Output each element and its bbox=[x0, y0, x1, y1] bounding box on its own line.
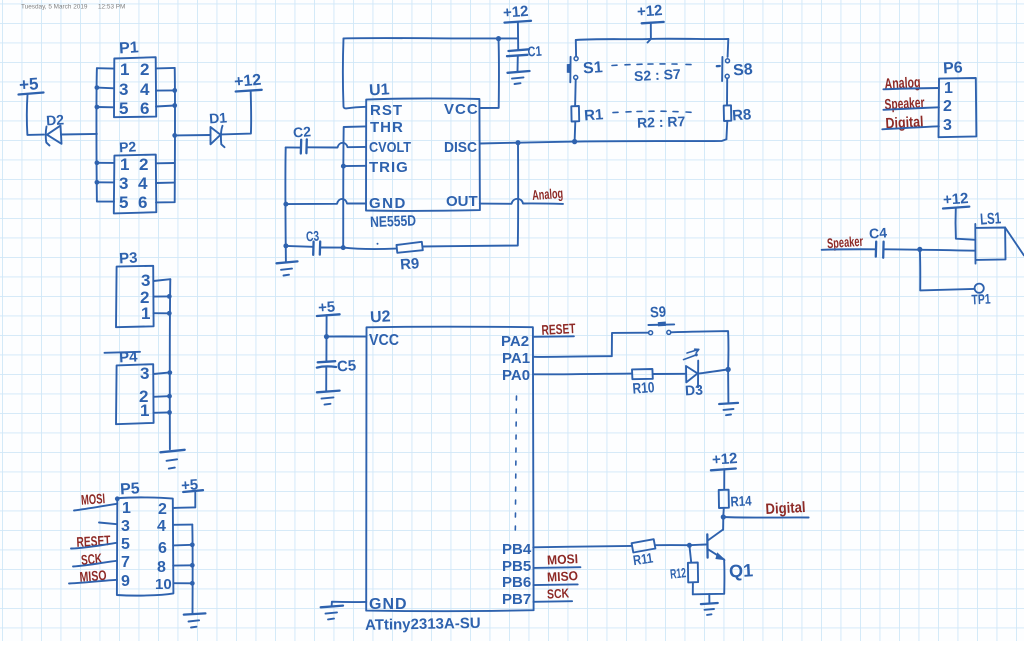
node: C3-TRIG junction bbox=[341, 245, 346, 250]
power +12 (Q1) bbox=[711, 450, 738, 490]
svg-text:+12: +12 bbox=[502, 3, 529, 22]
wire R9 to DISC drop bbox=[422, 143, 518, 247]
svg-text:MISO: MISO bbox=[547, 568, 579, 585]
svg-text:1: 1 bbox=[120, 60, 129, 79]
switch-bank bottom wire (DISC net) bbox=[518, 139, 726, 143]
ground (C5) bbox=[317, 391, 340, 405]
stray pen dot bbox=[377, 243, 379, 245]
wire S1 to R1 bbox=[574, 80, 577, 106]
svg-text:U1: U1 bbox=[369, 81, 390, 99]
node: bus-D1 bbox=[172, 133, 177, 138]
svg-text:4: 4 bbox=[157, 518, 166, 535]
svg-text:S2 : S7: S2 : S7 bbox=[634, 66, 682, 84]
svg-text:2: 2 bbox=[139, 155, 148, 174]
wire C2 right to CVOLT with hop bbox=[307, 143, 366, 148]
node: bus-P2.1 bbox=[95, 160, 100, 165]
svg-text:Digital: Digital bbox=[765, 499, 806, 518]
svg-text:Analog: Analog bbox=[884, 74, 921, 93]
svg-text:R2 : R7: R2 : R7 bbox=[637, 113, 686, 131]
resistor R8 bbox=[724, 105, 752, 124]
wire OUT with hop, to Analog bbox=[480, 199, 563, 204]
ground (U1 left) bbox=[277, 261, 298, 275]
switch S1 bbox=[567, 57, 603, 83]
power +5 rail (top-left) bbox=[18, 74, 43, 94]
svg-text:S1: S1 bbox=[583, 59, 604, 77]
svg-text:1: 1 bbox=[141, 304, 150, 323]
wire junction to VCC bbox=[327, 335, 367, 337]
node: bus-P1.5 bbox=[95, 105, 100, 110]
node: top wire / VCC drop bbox=[496, 36, 501, 41]
P1 right pin stubs bbox=[156, 68, 175, 107]
svg-text:+12: +12 bbox=[636, 2, 663, 21]
svg-text:2: 2 bbox=[158, 501, 167, 518]
right bus (even pins) bbox=[156, 68, 175, 203]
wire P5.2 to +5 bbox=[173, 492, 195, 508]
svg-text:VCC: VCC bbox=[369, 332, 399, 349]
capacitor C4 bbox=[868, 224, 887, 257]
svg-text:TRIG: TRIG bbox=[369, 159, 409, 176]
svg-text:C2: C2 bbox=[293, 123, 312, 140]
svg-text:P5: P5 bbox=[120, 480, 141, 498]
label MISO + PB6 stub bbox=[533, 568, 578, 585]
wire Speaker to C4 bbox=[822, 248, 876, 251]
wire to S8 bbox=[727, 39, 730, 57]
svg-text:2: 2 bbox=[943, 98, 952, 115]
ground (Q1) bbox=[701, 603, 718, 615]
connector P4 bbox=[105, 348, 154, 424]
svg-text:C1: C1 bbox=[527, 43, 542, 60]
svg-text:C5: C5 bbox=[336, 357, 356, 375]
power +12 (switch bank) bbox=[636, 2, 663, 43]
label RESET + wire to P5.5 bbox=[71, 532, 117, 550]
resistor R14 bbox=[719, 490, 752, 510]
svg-text:LS1: LS1 bbox=[980, 210, 1002, 228]
ground (U2) bbox=[321, 606, 343, 620]
wire PA1 to S9 bbox=[533, 333, 648, 357]
svg-text:SCK: SCK bbox=[547, 585, 570, 601]
svg-text:R1: R1 bbox=[584, 106, 604, 124]
svg-text:DISC: DISC bbox=[444, 139, 477, 156]
P3/P4 ground bus wire bbox=[169, 279, 172, 449]
node: GND wire junction bbox=[283, 202, 288, 207]
node: bus-P2.3 bbox=[95, 180, 100, 185]
svg-text:1: 1 bbox=[122, 500, 131, 517]
emitter wire to bottom bbox=[693, 559, 725, 594]
svg-text:PA2: PA2 bbox=[501, 333, 529, 350]
svg-text:R11: R11 bbox=[632, 550, 654, 569]
top wire RST-VCC-C1 bbox=[344, 37, 518, 39]
power +12 (left) bbox=[233, 72, 262, 92]
svg-text:VCC: VCC bbox=[444, 101, 479, 118]
power +5 (P5) bbox=[181, 476, 203, 494]
wire R8 to bottom wire bbox=[725, 121, 728, 139]
node: bus-P4.3 bbox=[167, 370, 172, 375]
ground (S9/D3) bbox=[719, 403, 738, 415]
svg-text:5: 5 bbox=[121, 536, 130, 553]
label Digital + wire bbox=[723, 499, 808, 518]
svg-text:P3: P3 bbox=[119, 249, 138, 267]
power +12 (C1) bbox=[502, 3, 531, 23]
wire D3 to junction bbox=[698, 370, 728, 374]
connector P6 bbox=[939, 59, 977, 137]
capacitor C5 bbox=[317, 357, 357, 391]
node: P5.1 corner bbox=[115, 496, 120, 501]
node: DISC junction bbox=[515, 140, 520, 145]
capacitor C3 bbox=[286, 228, 343, 255]
svg-text:+12: +12 bbox=[711, 450, 738, 469]
svg-text:3: 3 bbox=[119, 174, 128, 193]
node: bus-P3.2 bbox=[167, 294, 172, 299]
node: bus-P1.3 bbox=[95, 85, 100, 90]
svg-text:PB4: PB4 bbox=[502, 541, 532, 558]
wire R11 to Q1 base bbox=[655, 544, 706, 547]
ground (P3/P4 bus) bbox=[160, 450, 184, 469]
node: collector/Digital junction bbox=[721, 514, 726, 519]
svg-text:PB5: PB5 bbox=[502, 558, 531, 575]
P5.3 stub bbox=[99, 523, 117, 525]
node: C3 wire junction bbox=[283, 243, 288, 248]
connector P2 bbox=[114, 138, 157, 213]
label MISO + wire to P5.9 bbox=[69, 567, 117, 585]
svg-text:PA0: PA0 bbox=[502, 367, 530, 384]
speaker LS1 bbox=[975, 210, 1024, 263]
diode D1 bbox=[209, 109, 228, 147]
svg-text:S9: S9 bbox=[649, 303, 666, 321]
svg-text:1: 1 bbox=[140, 401, 149, 420]
transistor Q1 bbox=[707, 530, 753, 582]
svg-text:OUT: OUT bbox=[446, 193, 478, 210]
microcontroller U2 box bbox=[366, 308, 533, 613]
P5 right pin stubs bbox=[173, 525, 192, 584]
ground (C1) bbox=[508, 71, 530, 84]
node: bus-P1.4 bbox=[172, 88, 177, 93]
switch S9 bbox=[648, 303, 674, 334]
label Analog (P6) + wire bbox=[883, 74, 939, 93]
wire junction to C5 bbox=[325, 337, 327, 361]
svg-text:9: 9 bbox=[121, 573, 130, 590]
wire R1 to bottom wire bbox=[574, 122, 577, 142]
wire top to RST bbox=[343, 38, 366, 108]
svg-text:TP1: TP1 bbox=[971, 290, 991, 307]
svg-text:D1: D1 bbox=[209, 109, 228, 126]
wire +5 to D2 bbox=[27, 95, 44, 135]
ground (P5 bus) bbox=[184, 613, 206, 627]
wire TRIG bbox=[343, 165, 366, 167]
wire R10 to D3 bbox=[653, 373, 686, 375]
svg-text:RESET: RESET bbox=[541, 320, 576, 338]
svg-text:12:53 PM: 12:53 PM bbox=[98, 4, 125, 11]
svg-text:GND: GND bbox=[369, 195, 407, 212]
switch bank top wire bbox=[576, 39, 729, 40]
power +12 (LS1) bbox=[942, 190, 975, 240]
svg-text:+5: +5 bbox=[18, 74, 39, 94]
svg-text:R12: R12 bbox=[669, 565, 686, 582]
svg-text:MOSI: MOSI bbox=[80, 490, 105, 508]
wire C2 left to left drop bbox=[286, 146, 301, 148]
label Digital (P6) + wire bbox=[882, 113, 939, 132]
P4 pin stubs bbox=[153, 372, 170, 412]
wire C3 junction to R9 bbox=[343, 248, 396, 249]
svg-text:R9: R9 bbox=[400, 255, 420, 273]
svg-text:2: 2 bbox=[140, 60, 149, 79]
svg-text:P1: P1 bbox=[119, 39, 140, 57]
svg-text:ATtiny2313A-SU: ATtiny2313A-SU bbox=[365, 615, 481, 634]
svg-text:4: 4 bbox=[140, 80, 150, 99]
svg-text:4: 4 bbox=[138, 174, 148, 193]
diode D2 bbox=[46, 111, 65, 145]
svg-text:C4: C4 bbox=[868, 224, 887, 241]
op-amp U1 box (NE555) bbox=[366, 81, 480, 212]
power +5 (U2) bbox=[317, 298, 340, 336]
capacitor C2 bbox=[293, 123, 312, 153]
svg-text:THR: THR bbox=[370, 119, 404, 136]
node: D3/ground junction bbox=[725, 367, 730, 372]
label MOSI + wire to P5.1 bbox=[74, 490, 117, 510]
svg-text:NE555D: NE555D bbox=[370, 212, 417, 231]
wire PB4 to R11 bbox=[533, 546, 631, 547]
switch S8 bbox=[717, 57, 754, 81]
wire C4 to LS1 bbox=[884, 249, 975, 250]
node: bus-P5.8 bbox=[190, 563, 195, 568]
svg-text:R10: R10 bbox=[632, 379, 655, 397]
svg-text:D3: D3 bbox=[685, 381, 704, 398]
svg-text:PA1: PA1 bbox=[502, 350, 530, 367]
svg-text:3: 3 bbox=[140, 364, 149, 383]
svg-text:8: 8 bbox=[157, 559, 166, 576]
node: bus-P5.6 bbox=[190, 542, 195, 547]
node: bus-P5.10 bbox=[190, 581, 195, 586]
connector P1 bbox=[114, 39, 156, 118]
wire to S1 bbox=[575, 40, 577, 57]
dashed pin ellipsis inside U2 bbox=[515, 396, 516, 530]
dashed S2:S7 bbox=[612, 64, 691, 84]
svg-text:R14: R14 bbox=[730, 492, 752, 509]
svg-text:6: 6 bbox=[140, 99, 149, 118]
node: TRIG junction bbox=[341, 164, 346, 169]
wire S8 to R8 bbox=[726, 79, 728, 106]
LED D3 bbox=[684, 349, 704, 398]
svg-text:CVOLT: CVOLT bbox=[369, 139, 411, 156]
right ground bus of P5 bbox=[191, 525, 193, 614]
wire DISC bbox=[480, 142, 518, 145]
svg-text:Q1: Q1 bbox=[729, 560, 754, 581]
svg-text:PB7: PB7 bbox=[502, 591, 531, 608]
svg-text:D2: D2 bbox=[46, 111, 65, 128]
svg-text:Tuesday, 5 March 2019: Tuesday, 5 March 2019 bbox=[21, 4, 88, 11]
wire S9 to right drop bbox=[671, 331, 729, 369]
svg-text:3: 3 bbox=[119, 80, 128, 99]
wire R12 to bottom bbox=[692, 582, 694, 594]
label RESET + PA2 stub bbox=[533, 320, 576, 338]
THR-TRIG vertical bbox=[343, 126, 366, 247]
wire R14 to collector node bbox=[722, 508, 725, 517]
test point TP1 bbox=[971, 284, 991, 308]
svg-text:5: 5 bbox=[119, 99, 128, 118]
svg-text:+12: +12 bbox=[233, 72, 262, 91]
svg-text:R8: R8 bbox=[732, 106, 752, 124]
svg-text:RST: RST bbox=[370, 102, 403, 119]
svg-text:1: 1 bbox=[944, 80, 953, 97]
svg-text:1: 1 bbox=[120, 155, 129, 174]
resistor R9 bbox=[397, 242, 423, 274]
wire bottom to ground bbox=[708, 594, 710, 602]
svg-text:3: 3 bbox=[121, 518, 130, 535]
node: base/R12 junction bbox=[687, 543, 692, 548]
U2 GND stub bbox=[332, 602, 367, 606]
label Speaker (P6) + wire bbox=[883, 94, 939, 113]
wire D1 to +12 bbox=[221, 92, 251, 135]
node: R1-bottom junction bbox=[572, 139, 577, 144]
resistor R1 bbox=[571, 106, 604, 125]
label SCK + PB7 stub bbox=[533, 585, 572, 601]
wire R12 drop bbox=[689, 545, 691, 562]
node: C4/TP1 junction bbox=[917, 247, 922, 252]
node: bus-P3.1 bbox=[167, 311, 172, 316]
left bus (odd pins) bbox=[96, 68, 114, 201]
resistor R12 bbox=[669, 563, 698, 583]
node: bus-P4.1 bbox=[167, 410, 172, 415]
node: bus-P1.6 bbox=[172, 103, 177, 108]
connector P5 bbox=[117, 480, 173, 595]
svg-text:GND: GND bbox=[369, 596, 408, 613]
svg-text:7: 7 bbox=[121, 554, 130, 571]
svg-text:Analog: Analog bbox=[532, 185, 564, 203]
resistor R10 bbox=[632, 369, 655, 398]
P3 pin stubs bbox=[153, 279, 170, 313]
wire junction down to TP1 bbox=[920, 249, 974, 290]
wire junction to ground bbox=[727, 370, 729, 403]
svg-text:P6: P6 bbox=[943, 59, 964, 77]
svg-text:U2: U2 bbox=[370, 308, 391, 326]
P2 right pin stubs bbox=[156, 163, 175, 183]
svg-text:3: 3 bbox=[943, 117, 952, 134]
node: +5/C5/VCC junction bbox=[324, 334, 329, 339]
wire GND with hop bbox=[286, 199, 366, 204]
P1 left pin stubs bbox=[97, 68, 114, 107]
wire VCC drop bbox=[480, 39, 499, 108]
svg-text:S8: S8 bbox=[733, 61, 754, 79]
connector P3 bbox=[116, 249, 154, 327]
svg-text:6: 6 bbox=[138, 193, 147, 212]
wire PA0 to R10 bbox=[533, 373, 631, 376]
wire +12 to C1 bbox=[517, 22, 519, 50]
node: bus-P4.2 bbox=[167, 394, 172, 399]
label SCK + wire to P5.7 bbox=[73, 550, 117, 568]
dashed R2:R7 bbox=[613, 111, 691, 131]
svg-text:P2: P2 bbox=[119, 138, 137, 155]
wire collector bbox=[722, 517, 724, 530]
svg-text:5: 5 bbox=[119, 193, 128, 212]
P2 left pin stubs bbox=[97, 163, 114, 183]
left vertical C2/GND/C3 bbox=[284, 147, 286, 261]
wire D2 to left bus bbox=[61, 133, 97, 136]
svg-text:10: 10 bbox=[155, 576, 172, 593]
svg-text:PB6: PB6 bbox=[502, 574, 531, 591]
wire bus to D1 bbox=[175, 134, 211, 136]
label MOSI + PB5 stub bbox=[533, 551, 580, 568]
capacitor C1 bbox=[507, 43, 542, 72]
svg-text:MOSI: MOSI bbox=[547, 551, 579, 568]
resistor R11 bbox=[632, 539, 656, 568]
svg-text:6: 6 bbox=[158, 540, 167, 557]
svg-text:Speaker: Speaker bbox=[884, 94, 925, 113]
